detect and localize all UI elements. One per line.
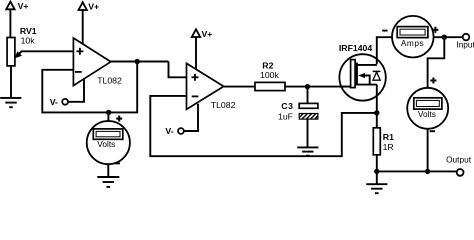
svg-text:RV1: RV1 bbox=[20, 26, 37, 36]
svg-text:R1: R1 bbox=[383, 132, 394, 142]
power V- U2 bbox=[165, 126, 183, 136]
ground bottom right bbox=[366, 184, 387, 193]
potentiometer RV1 bbox=[7, 26, 37, 66]
wire drain up to ammeter bbox=[377, 37, 392, 64]
capacitor C3 bbox=[278, 101, 318, 122]
Q1 body diode bbox=[373, 71, 381, 80]
svg-text:10k: 10k bbox=[21, 36, 36, 46]
wire bottom rail to output bbox=[377, 170, 456, 172]
voltmeter M3 bbox=[407, 88, 448, 129]
svg-text:TL082: TL082 bbox=[97, 75, 122, 85]
svg-text:Input: Input bbox=[456, 40, 474, 50]
svg-text:100k: 100k bbox=[260, 70, 279, 80]
op-amp U1 bbox=[73, 38, 122, 86]
power V+ P3 bbox=[192, 29, 213, 69]
ground under RV1 bbox=[0, 98, 21, 107]
svg-text:Output: Output bbox=[446, 154, 472, 164]
svg-text:1R: 1R bbox=[383, 142, 394, 152]
wire rail to ground bbox=[376, 171, 378, 184]
ammeter M2 bbox=[392, 16, 434, 58]
Q1 gate plate bbox=[351, 60, 356, 88]
wire source down through sense node to R1 bbox=[376, 85, 378, 128]
wire ammeter to input node bbox=[434, 36, 462, 38]
wire U2 feedback from R1 sense node to - input bbox=[150, 96, 376, 156]
svg-text:1uF: 1uF bbox=[278, 111, 293, 121]
svg-text:C3: C3 bbox=[281, 101, 293, 111]
svg-text:R2: R2 bbox=[262, 60, 273, 70]
svg-text:V+: V+ bbox=[18, 1, 29, 11]
wire gate inside bbox=[340, 86, 354, 88]
transistor Q1 IRF1404 bbox=[339, 43, 386, 101]
Q1 drain stub bbox=[357, 64, 377, 66]
voltmeter M1 bbox=[87, 121, 130, 164]
power V+ P2 bbox=[79, 2, 100, 45]
terminal Input bbox=[456, 34, 474, 50]
wire C3 top lead bbox=[307, 87, 309, 104]
Q1 channel bar bbox=[356, 63, 358, 86]
node U1 output junction bbox=[135, 59, 140, 64]
node M3 rail junction bbox=[425, 169, 430, 174]
wire M1 + lead bbox=[107, 112, 109, 121]
svg-text:V-: V- bbox=[50, 97, 58, 107]
resistor R1 bbox=[373, 128, 394, 155]
wire R1 bottom to rail bbox=[376, 155, 378, 172]
node R2 / C3 / gate junction bbox=[305, 84, 310, 89]
wire op-amp U2 V- pin bbox=[184, 104, 198, 131]
wire R2 to MOSFET gate bbox=[285, 86, 353, 88]
svg-text:V+: V+ bbox=[88, 2, 99, 12]
wire input node down to voltmeter M3 bbox=[428, 37, 445, 88]
node source sense junction bbox=[374, 110, 379, 115]
Q1 body arrow bbox=[358, 73, 370, 85]
power V- U1 bbox=[50, 97, 68, 107]
svg-text:TL082: TL082 bbox=[211, 100, 236, 110]
power V+ P1 bbox=[6, 1, 28, 38]
svg-text:Volts: Volts bbox=[418, 109, 436, 119]
node voltmeter M1 tap bbox=[106, 110, 111, 115]
op-amp U2 bbox=[187, 63, 236, 110]
wire M1 - lead to ground bbox=[107, 164, 109, 177]
svg-text:V-: V- bbox=[165, 126, 173, 136]
wire U1 feedback loop (output to - input) bbox=[42, 62, 137, 113]
svg-text:V+: V+ bbox=[202, 29, 213, 39]
resistor R2 bbox=[255, 60, 285, 90]
wire RV1 bottom to ground bbox=[10, 66, 12, 98]
svg-text:Amps: Amps bbox=[401, 38, 424, 48]
Q1 source stub bbox=[357, 84, 377, 86]
wire U1 output to U2 + input bbox=[169, 62, 187, 78]
wire C3 bottom lead to ground bbox=[307, 119, 309, 147]
ground under C3 bbox=[297, 147, 318, 155]
terminal Output bbox=[446, 154, 472, 175]
wire U2 output to R2 bbox=[224, 86, 255, 88]
svg-text:Volts: Volts bbox=[97, 139, 115, 149]
wire RV1 wiper to op-amp U1 + input bbox=[14, 51, 73, 58]
wire op-amp U1 V- pin bbox=[68, 79, 84, 102]
wire U1 output bbox=[111, 61, 169, 63]
ground under voltmeter M1 bbox=[97, 177, 119, 187]
wire M3 - lead down to rail bbox=[427, 129, 429, 172]
node input junction bbox=[442, 35, 447, 40]
node R1 / ground junction bbox=[374, 169, 379, 174]
svg-text:IRF1404: IRF1404 bbox=[339, 43, 372, 53]
